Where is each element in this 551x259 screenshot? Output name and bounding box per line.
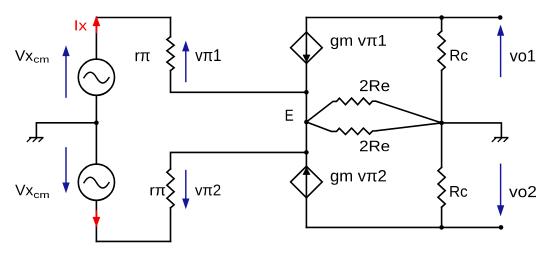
- label vpi2: [195, 185, 220, 196]
- current arrow at V2 bottom (red, down): [93, 211, 100, 226]
- arrow: Vx_cm lower polarity (blue, down): [63, 148, 69, 192]
- label rpi1 value: [136, 52, 150, 61]
- wire: bottom-right horizontal rail: [306, 226, 501, 228]
- arrow: vpi1 (blue, up): [183, 42, 189, 82]
- dependent current source G2 (diamond, gm vpi2, arrow up): [291, 166, 323, 197]
- label vo1: [510, 50, 535, 62]
- sine symbol of V2: [84, 177, 109, 188]
- current arrow Ix (red, up): [93, 17, 100, 33]
- wire: top-right horizontal rail: [306, 17, 500, 19]
- label vpi1: [195, 49, 221, 61]
- wire: rpi1 bottom lead to node B1: [171, 71, 307, 93]
- label vo2: [509, 186, 536, 197]
- label 2Re (lower): [360, 141, 389, 152]
- wire: below V2: [95, 200, 97, 241]
- wire: Rc2 top lead: [441, 123, 443, 167]
- dependent current source G1 (diamond, gm vpi1, arrow down): [291, 32, 323, 63]
- junction dot: 2Re / Rc / right ground node: [439, 121, 444, 126]
- wire: top-left horizontal (Ix corner to rpi1 top): [96, 17, 170, 19]
- junction dot: left branch to ground wire: [94, 121, 99, 126]
- label Vx_cm (lower): [15, 185, 33, 196]
- label gm vpi1: [331, 35, 386, 49]
- wire: middle branch bottom lead: [305, 198, 307, 228]
- wire: bottom-left horizontal: [96, 240, 170, 242]
- wire: to right ground: [442, 123, 502, 137]
- label Vx_cm (upper): [15, 50, 33, 60]
- resistor 2Re (upper, node E to Rc mid node): [306, 98, 441, 123]
- terminal dot: vo1 output node: [498, 15, 503, 20]
- resistor rpi1: [167, 37, 174, 71]
- wire: rpi2 bottom lead: [170, 208, 172, 242]
- wire: rpi2 top lead to node B2: [171, 152, 307, 169]
- sine symbol of V1: [84, 72, 109, 83]
- wire: to left ground: [36, 123, 96, 137]
- wire: Rc1 bottom lead to mid junction: [441, 70, 443, 123]
- label 2Re (upper): [360, 80, 389, 91]
- resistor rpi2: [167, 169, 174, 208]
- arrow: vo1 (blue, up): [498, 26, 504, 77]
- junction dot: bottom rail / Rc2: [439, 225, 444, 230]
- voltage source V1 (upper Vx_cm AC source): [78, 59, 114, 95]
- wire: Rc1 top lead: [441, 18, 443, 32]
- label Ix (red): [75, 20, 87, 30]
- resistor Rc1: [438, 31, 445, 70]
- arrow: vpi2 (blue, down): [183, 171, 189, 208]
- wire: Rc2 bottom lead: [441, 207, 443, 227]
- label rpi2 value: [151, 187, 166, 196]
- label node E: [286, 110, 293, 121]
- arrow: Vx_cm upper polarity (blue, up): [63, 47, 69, 98]
- wire: left branch vertical above source V1: [95, 18, 97, 60]
- label Rc1 value: [451, 50, 468, 61]
- junction dot: top rail / Rc1: [439, 15, 444, 20]
- ground symbol (right): [492, 138, 507, 142]
- wire: middle branch top lead: [305, 18, 307, 33]
- wire: middle branch vertical G1 to G2: [305, 63, 307, 166]
- resistor 2Re (lower, node E to Rc mid node): [306, 122, 441, 135]
- resistor Rc2: [438, 167, 445, 207]
- terminal dot: vo2 output node: [499, 225, 504, 230]
- wire: rpi1 top lead: [170, 18, 172, 37]
- label Rc2 value: [450, 186, 467, 197]
- node E junction dot: [304, 120, 309, 125]
- wire: left branch between V1 and V2: [95, 95, 97, 164]
- arrow: vo2 (blue, down): [498, 164, 504, 215]
- voltage source V2 (lower Vx_cm AC source): [78, 164, 114, 200]
- label gm vpi2: [331, 170, 386, 185]
- junction dot: node B2: [304, 150, 309, 155]
- ground symbol (left): [27, 138, 42, 142]
- junction dot: node B1: [304, 90, 309, 95]
